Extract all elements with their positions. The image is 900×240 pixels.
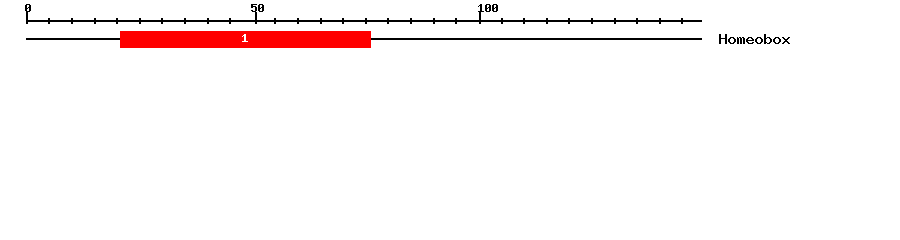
minor ticks every 5 residues — [48, 18, 683, 24]
ruler label 100 — [478, 4, 498, 12]
domain name label Homeobox — [719, 34, 790, 44]
domain box (Homeobox, red) — [120, 31, 371, 48]
ruler label 0 — [25, 4, 31, 12]
major tick 100 — [479, 12, 481, 24]
major tick 0 — [26, 12, 28, 24]
major tick 50 — [255, 12, 257, 24]
ruler baseline — [26, 20, 702, 22]
domain rank number 1 (white) — [242, 34, 248, 42]
protein backbone line — [26, 38, 702, 40]
ruler label 50 — [251, 4, 264, 12]
